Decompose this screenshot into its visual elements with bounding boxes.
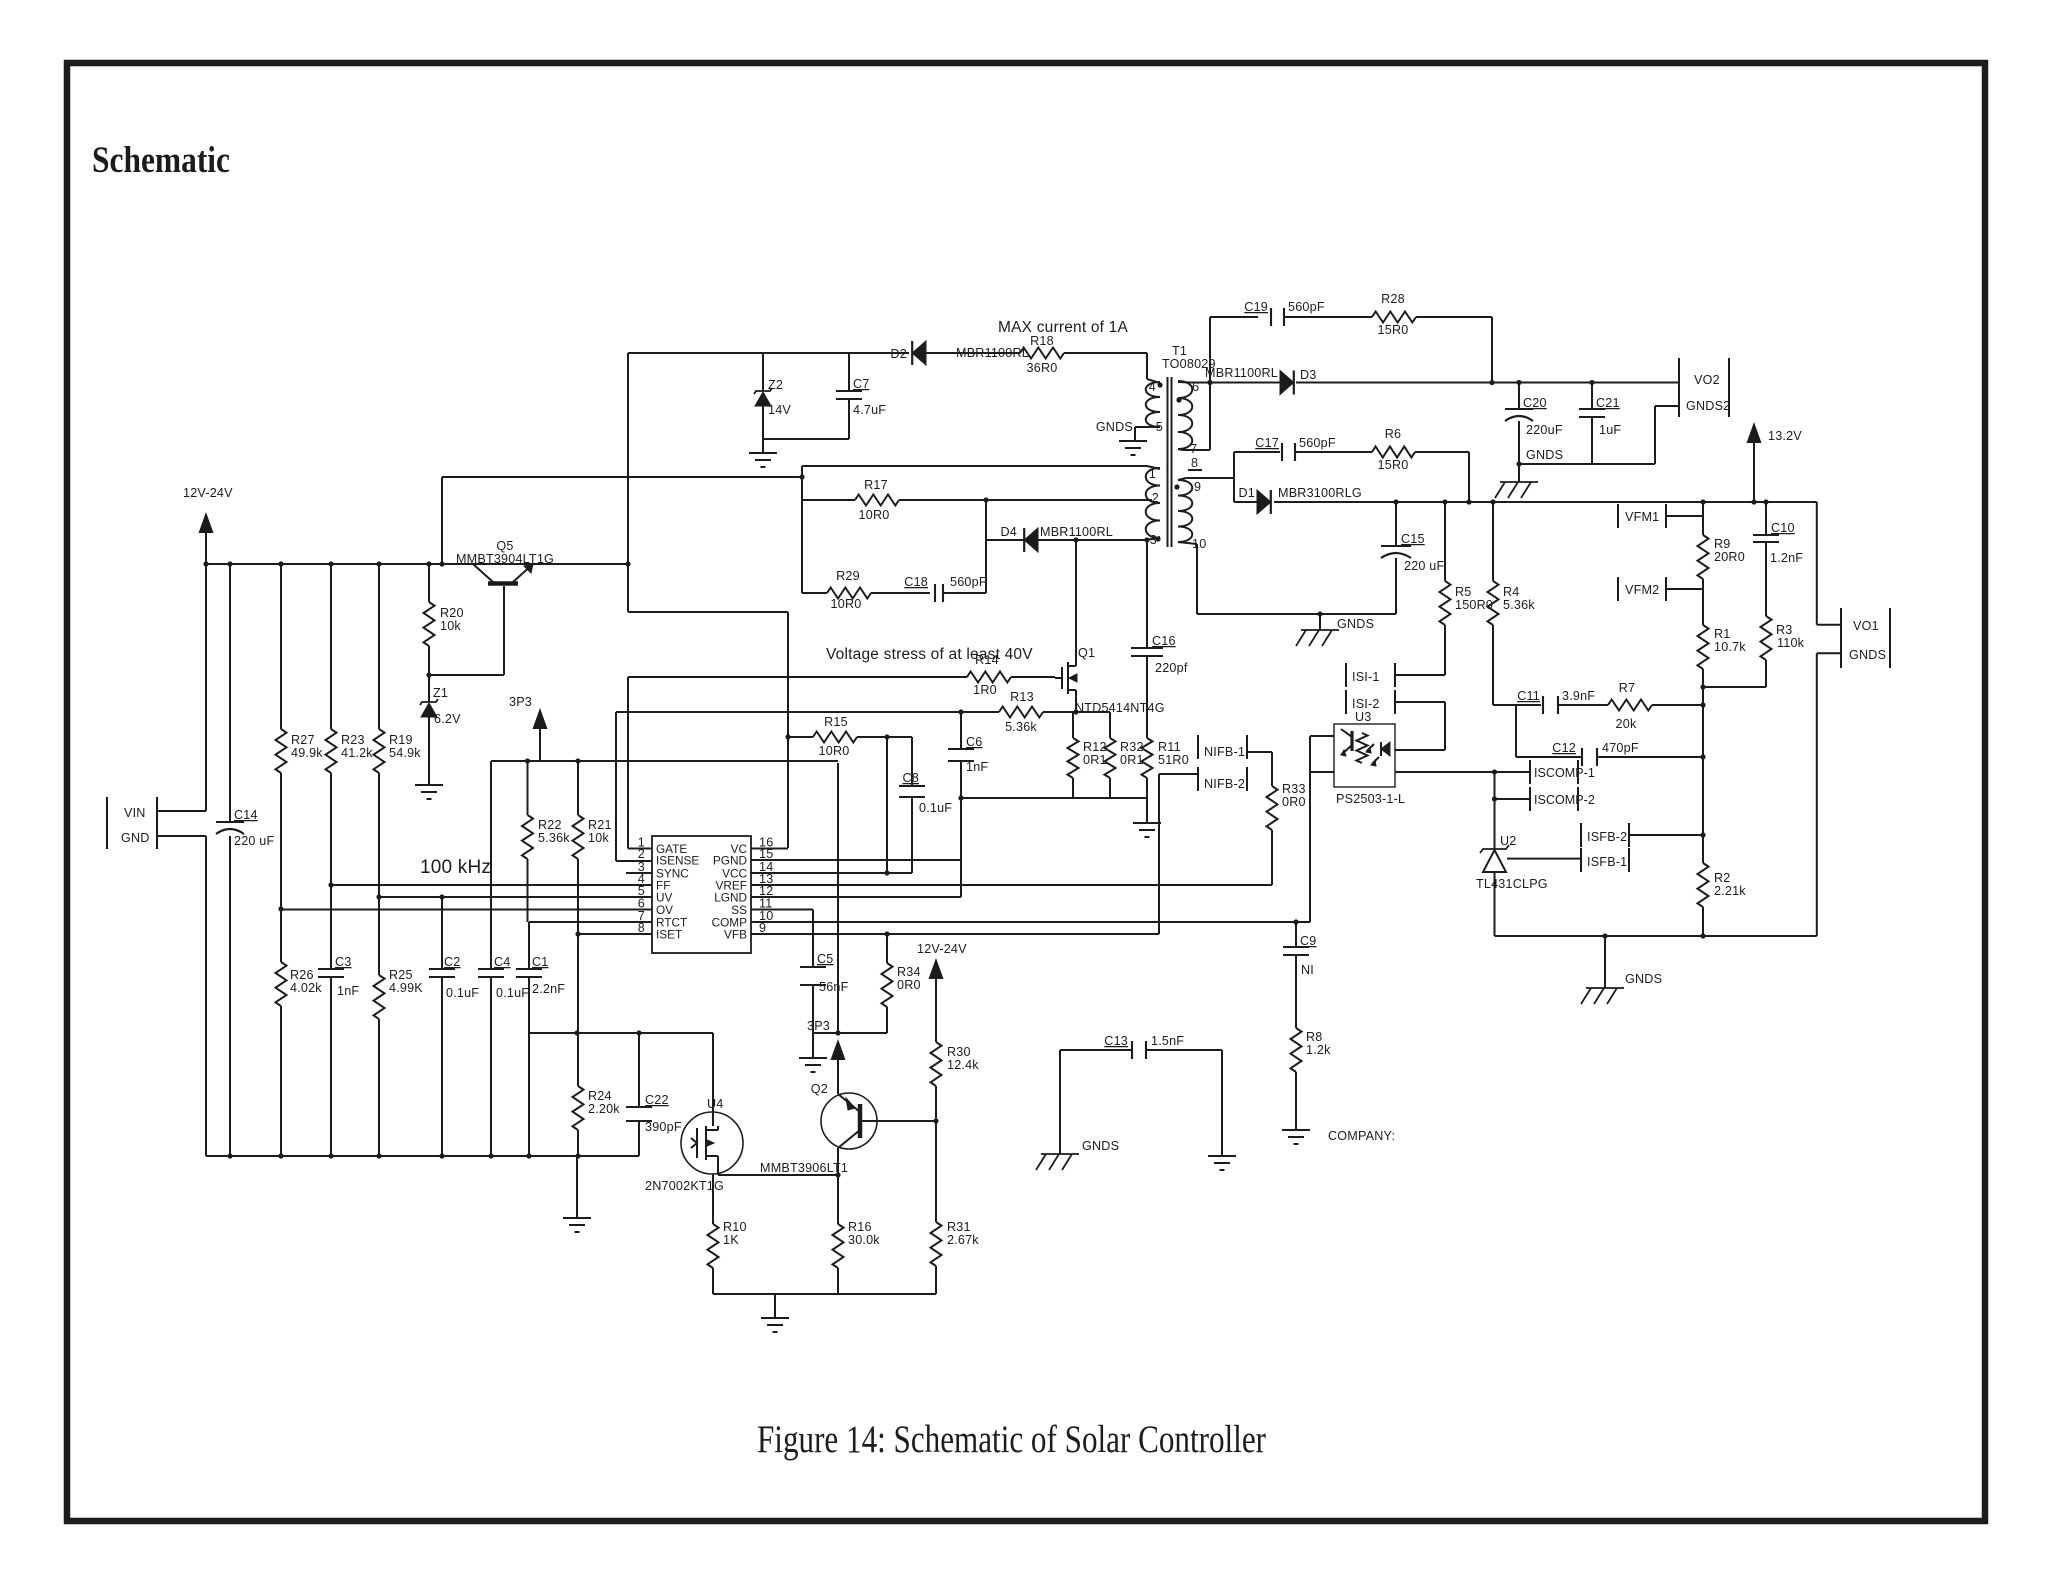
svg-text:R1: R1 [1714,627,1731,641]
svg-text:ISCOMP-2: ISCOMP-2 [1534,793,1595,807]
svg-text:R26: R26 [290,968,314,982]
port NIFB-2 [1198,767,1247,791]
svg-text:0.1uF: 0.1uF [496,986,529,1000]
diode D2 [891,341,1029,365]
svg-text:390pF: 390pF [645,1120,682,1134]
svg-text:ISFB-1: ISFB-1 [1587,855,1627,869]
svg-text:1R0: 1R0 [973,683,997,697]
wire R18 to T1 pin4 [1064,353,1147,379]
svg-text:R11: R11 [1158,740,1181,754]
wire VO1 gnd pin [1817,653,1841,936]
wire ISFB-2 to R2 [1629,832,1706,837]
caption text [757,1418,1266,1461]
svg-text:2.21k: 2.21k [1714,884,1746,898]
svg-text:R3: R3 [1776,623,1793,637]
svg-text:12V-24V: 12V-24V [183,486,233,500]
svg-text:3.9nF: 3.9nF [1562,689,1595,703]
svg-text:C12: C12 [1552,741,1576,755]
wire pin10 gnd row [1197,544,1396,614]
svg-text:13.2V: 13.2V [1768,429,1802,443]
capacitor C14 [216,561,275,1158]
svg-text:6.2V: 6.2V [434,712,461,726]
svg-text:15R0: 15R0 [1378,458,1409,472]
svg-text:MBR1100RL: MBR1100RL [1205,366,1278,380]
resistor R13 [616,690,1110,734]
wire pin1 GATE [628,677,652,849]
resistor R22 [522,761,570,922]
transistor Q5 [456,539,554,584]
port ISFB-2 [1581,823,1629,847]
svg-text:R12: R12 [1083,740,1107,754]
svg-text:COMPANY:: COMPANY: [1328,1129,1395,1143]
wire pin3 SYNC stub [626,872,652,874]
svg-text:0R1: 0R1 [1083,753,1107,767]
svg-text:D2: D2 [891,347,908,361]
svg-text:C5: C5 [817,952,834,966]
svg-text:C13: C13 [1104,1034,1128,1048]
svg-text:1uF: 1uF [1599,423,1621,437]
svg-text:MMBT3906LT1: MMBT3906LT1 [760,1161,848,1175]
svg-text:R28: R28 [1381,292,1405,306]
svg-text:1K: 1K [723,1233,739,1247]
svg-text:0.1uF: 0.1uF [446,986,479,1000]
wire opto to ISCOMP-1 [1395,769,1530,774]
svg-text:VFM2: VFM2 [1625,583,1659,597]
svg-text:54.9k: 54.9k [389,746,421,760]
svg-text:C9: C9 [1300,934,1317,948]
svg-text:1.5nF: 1.5nF [1151,1034,1184,1048]
svg-text:3P3: 3P3 [509,695,532,709]
svg-text:R15: R15 [824,715,848,729]
resistor R29 [802,569,871,611]
resistor R6 [1295,427,1469,502]
IC U1 PWM controller [638,836,774,954]
capacitor C21 [1579,380,1621,464]
wire rail jog to VC [628,612,788,848]
svg-text:MMBT3904LT1G: MMBT3904LT1G [456,552,554,566]
resistor R31 [931,1121,980,1294]
wire C19 snubber [1210,317,1258,450]
capacitor C3 [318,882,359,1158]
svg-text:10R0: 10R0 [819,744,850,758]
svg-text:GND: GND [121,831,150,845]
wire T1 pin1 row [802,465,1147,467]
svg-text:U4: U4 [707,1097,724,1111]
svg-text:12.4k: 12.4k [947,1058,979,1072]
svg-text:R5: R5 [1455,585,1472,599]
svg-text:0R0: 0R0 [897,978,921,992]
svg-text:C8: C8 [903,771,920,785]
port ISFB-1 [1581,848,1629,872]
svg-text:49.9k: 49.9k [291,746,323,760]
svg-text:0R1: 0R1 [1120,753,1144,767]
capacitor C1 [516,922,565,1159]
svg-text:R17: R17 [864,478,888,492]
resistor R2 [1698,835,1747,936]
capacitor C6 [948,709,988,897]
svg-text:NIFB-2: NIFB-2 [1204,777,1245,791]
wire sense junction col [1702,687,1704,836]
ground GNDS return [1581,936,1662,1004]
wire VCC rail vertical [627,353,629,612]
wire pin12 LGND [751,896,961,898]
svg-text:220pf: 220pf [1155,661,1188,675]
svg-text:R30: R30 [947,1045,971,1059]
ground C13 right [1208,1050,1236,1170]
svg-text:56nF: 56nF [819,980,849,994]
svg-text:4.99K: 4.99K [389,981,423,995]
title text [92,140,230,181]
svg-text:3P3: 3P3 [807,1019,830,1033]
capacitor C8 [899,737,952,873]
wire sense gnd row [958,795,1147,800]
resistor R25 [374,894,424,1158]
ground C5 [799,1033,827,1072]
svg-text:220uF: 220uF [1526,423,1563,437]
svg-text:GNDS2: GNDS2 [1686,399,1730,413]
port ISCOMP-1 [1530,760,1595,784]
svg-text:GNDS: GNDS [1096,420,1133,434]
zener Z2 [754,353,791,417]
svg-text:1: 1 [1149,467,1156,481]
svg-text:GNDS: GNDS [1625,972,1662,986]
optocoupler U3 [1334,710,1405,806]
svg-text:Voltage stress of at least 40V: Voltage stress of at least 40V [826,646,1033,663]
svg-text:R19: R19 [389,733,413,747]
ground under Z1 [415,785,443,799]
svg-text:C7: C7 [853,377,870,391]
svg-text:9: 9 [1194,480,1201,494]
wire Z2-C7 bottom [763,406,849,439]
wire C17 row [1234,452,1280,502]
svg-text:VFM1: VFM1 [1625,510,1659,524]
svg-text:C20: C20 [1523,396,1547,410]
svg-text:Figure 14: Schematic of Solar: Figure 14: Schematic of Solar Controller [757,1418,1266,1461]
svg-text:Q5: Q5 [496,539,513,553]
wire comp row C11 [1493,702,1706,707]
svg-text:C15: C15 [1401,532,1425,546]
wire U2 ref to ISFB-1 [1507,858,1581,860]
svg-text:R23: R23 [341,733,365,747]
svg-text:220 uF: 220 uF [1404,559,1445,573]
wire Q5 collector [426,586,504,678]
T1 winding pin4-5 [1096,379,1163,441]
svg-text:R16: R16 [848,1220,872,1234]
capacitor C20 [1505,380,1563,464]
svg-text:R31: R31 [947,1220,971,1234]
svg-text:PS2503-1-L: PS2503-1-L [1336,792,1405,806]
svg-text:PGND: PGND [713,854,747,868]
resistor R30 [931,1042,980,1121]
svg-text:NI: NI [1301,963,1314,977]
svg-text:R7: R7 [1619,681,1636,695]
power arrow 12V-24V [183,486,233,567]
wire pin2 ISENSE [616,712,652,861]
svg-text:C3: C3 [335,955,352,969]
svg-text:C22: C22 [645,1093,669,1107]
wire VFM2 [1666,588,1703,590]
wire Q1 drain [1073,537,1078,666]
resistor R16 [833,1220,881,1294]
capacitor C10 [1753,502,1803,616]
svg-text:8: 8 [638,921,645,935]
resistor R15 [785,715,912,758]
T1 winding pin1-3 [1146,466,1161,547]
wire Q2 emitter [837,1057,839,1094]
svg-text:GNDS: GNDS [1849,648,1886,662]
resistor R33 [1267,752,1306,885]
svg-text:5.36k: 5.36k [538,831,570,845]
label 100 kHz [420,857,491,878]
mosfet U4 [645,1033,743,1193]
svg-text:C4: C4 [494,955,511,969]
wire pin7 RTCT [529,921,652,923]
port VIN GND [107,797,157,849]
wire NIFB-1 to R33 [1247,751,1272,753]
resistor R1 [1698,625,1747,687]
svg-text:220 uF: 220 uF [234,834,275,848]
svg-text:R20: R20 [440,606,464,620]
svg-text:1nF: 1nF [966,760,988,774]
wire pin13 VREF [751,884,1272,886]
wire VIN [157,810,206,812]
ground under Z2 [749,439,777,467]
resistor R5 [1440,502,1494,675]
T1 winding pin6-7 [1176,380,1210,470]
svg-text:2.2nF: 2.2nF [532,982,565,996]
svg-text:ISI-1: ISI-1 [1352,670,1380,684]
label MAX current of 1A [998,319,1128,336]
svg-text:U2: U2 [1500,834,1517,848]
capacitor C13 [1060,1034,1222,1059]
svg-text:41.2k: 41.2k [341,746,373,760]
wire ISCOMP-2 [1492,796,1530,801]
svg-text:470pF: 470pF [1602,741,1639,755]
svg-text:ISENSE: ISENSE [656,854,699,868]
svg-text:560pF: 560pF [950,575,987,589]
svg-text:12V-24V: 12V-24V [917,942,967,956]
zener Z1 [420,675,461,785]
port ISI-1 [1346,663,1395,687]
svg-text:R22: R22 [538,818,562,832]
svg-text:R32: R32 [1120,740,1144,754]
svg-text:R34: R34 [897,965,921,979]
wire D3 to VO2 [1296,380,1679,385]
wire pin2 row [983,497,1152,502]
wire NIFB-2 to VFB [1159,774,1198,934]
resistor R10 [708,1220,747,1294]
svg-text:VO2: VO2 [1694,373,1720,387]
svg-text:C19: C19 [1244,300,1268,314]
resistor R3 [1761,616,1805,687]
T1 winding pin9-10 [1174,478,1234,551]
ground sense row [1133,798,1161,837]
svg-text:1.2nF: 1.2nF [1770,551,1803,565]
ground T1 pin5 [1119,441,1147,455]
svg-text:4: 4 [1149,380,1156,394]
wire pin5 UV [379,896,652,898]
resistor R8 [1291,1028,1332,1130]
wire pin4 FF [331,884,652,886]
svg-text:R29: R29 [836,569,860,583]
svg-text:R10: R10 [723,1220,747,1234]
power arrow 13.2V [1747,422,1803,502]
wire bottom gnd bus [206,1155,639,1157]
power arrow 3P3 rail [509,695,548,761]
port VO2 GNDS2 [1655,358,1730,417]
ground R8 [1282,1129,1395,1144]
svg-text:10k: 10k [440,619,461,633]
wire block right rail [985,500,987,593]
svg-text:15R0: 15R0 [1378,323,1409,337]
svg-text:51R0: 51R0 [1158,753,1189,767]
port VFM1 [1618,504,1666,528]
resistor R28 [1284,292,1492,383]
diode D3 [1205,366,1316,395]
wire U4 source [712,1174,714,1224]
wire Q2 base [860,1118,939,1123]
wire U4 to Q2 [718,1172,841,1177]
svg-text:NIFB-1: NIFB-1 [1204,745,1245,759]
wire pin15 PGND [751,859,961,861]
svg-text:VO1: VO1 [1853,619,1879,633]
resistor R26 [276,906,323,1158]
capacitor C9 [1283,922,1317,1028]
wire C20-C21 gnd row [1519,406,1655,464]
resistor R14 [628,653,1055,697]
capacitor C16 [1131,537,1188,738]
svg-text:0R0: 0R0 [1282,795,1306,809]
svg-text:D1: D1 [1239,486,1256,500]
svg-text:GNDS: GNDS [1082,1139,1119,1153]
svg-text:ISCOMP-1: ISCOMP-1 [1534,766,1595,780]
svg-text:Q2: Q2 [811,1082,828,1096]
svg-text:C6: C6 [966,735,983,749]
port ISCOMP-2 [1530,787,1595,811]
svg-text:30.0k: 30.0k [848,1233,880,1247]
resistor R12 [1068,712,1107,798]
capacitor C22 [626,1033,682,1156]
svg-text:U3: U3 [1355,710,1372,724]
resistor R21 [573,761,612,934]
svg-text:560pF: 560pF [1299,436,1336,450]
wire ISI-1 to R5 [1395,674,1445,676]
capacitor C7 [836,353,886,439]
wire return row [1495,933,1817,938]
wire opto left pins [1310,736,1334,922]
svg-text:8: 8 [1191,456,1198,470]
svg-text:10.7k: 10.7k [1714,640,1746,654]
ground GNDS C15 [1296,611,1374,646]
wire pin6 to D3 [1190,380,1280,385]
wire C5 bottom row [813,1030,887,1035]
wire R1 R3 bottom row [1700,684,1766,689]
capacitor C17 [1255,436,1336,461]
wire pin8 ISET [575,931,652,936]
capacitor C15 [1381,502,1445,614]
svg-text:C21: C21 [1596,396,1620,410]
svg-text:36R0: 36R0 [1027,361,1058,375]
port NIFB-1 [1198,735,1247,759]
svg-text:Schematic: Schematic [92,140,230,181]
svg-text:D3: D3 [1300,368,1317,382]
resistor R18 [926,334,1064,375]
svg-text:R18: R18 [1030,334,1054,348]
wire R15 to VCC [886,737,888,873]
svg-text:5: 5 [1156,420,1163,434]
transistor Q2 [760,1082,877,1175]
svg-text:TL431CLPG: TL431CLPG [1476,877,1548,891]
ground GNDS under C20 [1495,461,1538,498]
svg-text:4.02k: 4.02k [290,981,322,995]
svg-text:MBR3100RLG: MBR3100RLG [1278,486,1362,500]
wire top rail to D2 [628,352,909,354]
svg-text:R6: R6 [1385,427,1402,441]
wire pin6 OV [281,909,652,911]
svg-text:GNDS: GNDS [1337,617,1374,631]
resistor R11 [1142,738,1189,798]
svg-text:10k: 10k [588,831,609,845]
resistor R7 [1558,681,1703,731]
resistor R20 [424,561,464,675]
svg-text:Z2: Z2 [768,378,783,392]
power arrow 12V-24V mid [917,942,967,1042]
capacitor C4 [478,761,529,1159]
wire U4 drain row [529,1030,713,1035]
capacitor C2 [429,894,479,1158]
svg-text:2: 2 [1152,491,1159,505]
wire GND to bottom bus [157,836,206,1156]
port VFM2 [1618,577,1666,601]
resistor R34 [882,934,921,1033]
svg-text:1.2k: 1.2k [1306,1043,1331,1057]
wire main 12V bus [206,561,631,566]
wire 3P3 rail [491,758,838,763]
svg-text:10R0: 10R0 [831,597,862,611]
svg-text:10R0: 10R0 [859,508,890,522]
svg-text:R27: R27 [291,733,315,747]
wire comp row C12 [1516,705,1706,760]
svg-text:R25: R25 [389,968,413,982]
svg-text:VIN: VIN [124,806,146,820]
svg-text:7: 7 [1190,442,1197,456]
svg-text:MBR1100RL: MBR1100RL [1040,525,1113,539]
svg-text:150R0: 150R0 [1455,598,1493,612]
wire 12V bus to VIN [205,564,207,811]
wire 12V feed to primary [439,474,804,566]
svg-text:C17: C17 [1255,436,1279,450]
port ISI-2 [1346,690,1395,714]
wire opto to ISI-2 [1395,702,1445,750]
ground bus left [563,1156,591,1232]
svg-text:2.67k: 2.67k [947,1233,979,1247]
capacitor C19 [1244,300,1325,326]
svg-text:ISI-2: ISI-2 [1352,697,1380,711]
resistor R27 [276,561,324,909]
port VO1 GNDS [1841,608,1890,668]
label voltage stress [826,646,1033,663]
wire VFM1 [1666,515,1703,517]
wire pin11 SS [751,909,813,911]
shunt regulator U2 TL431 [1476,772,1548,936]
svg-text:R33: R33 [1282,782,1306,796]
resistor R24 [573,934,621,1159]
svg-text:GNDS: GNDS [1526,448,1563,462]
wire pin14 VCC [751,870,912,875]
svg-text:C14: C14 [234,808,258,822]
power arrow 3P3 mid [807,763,846,1060]
transformer T1 core [1168,377,1172,547]
